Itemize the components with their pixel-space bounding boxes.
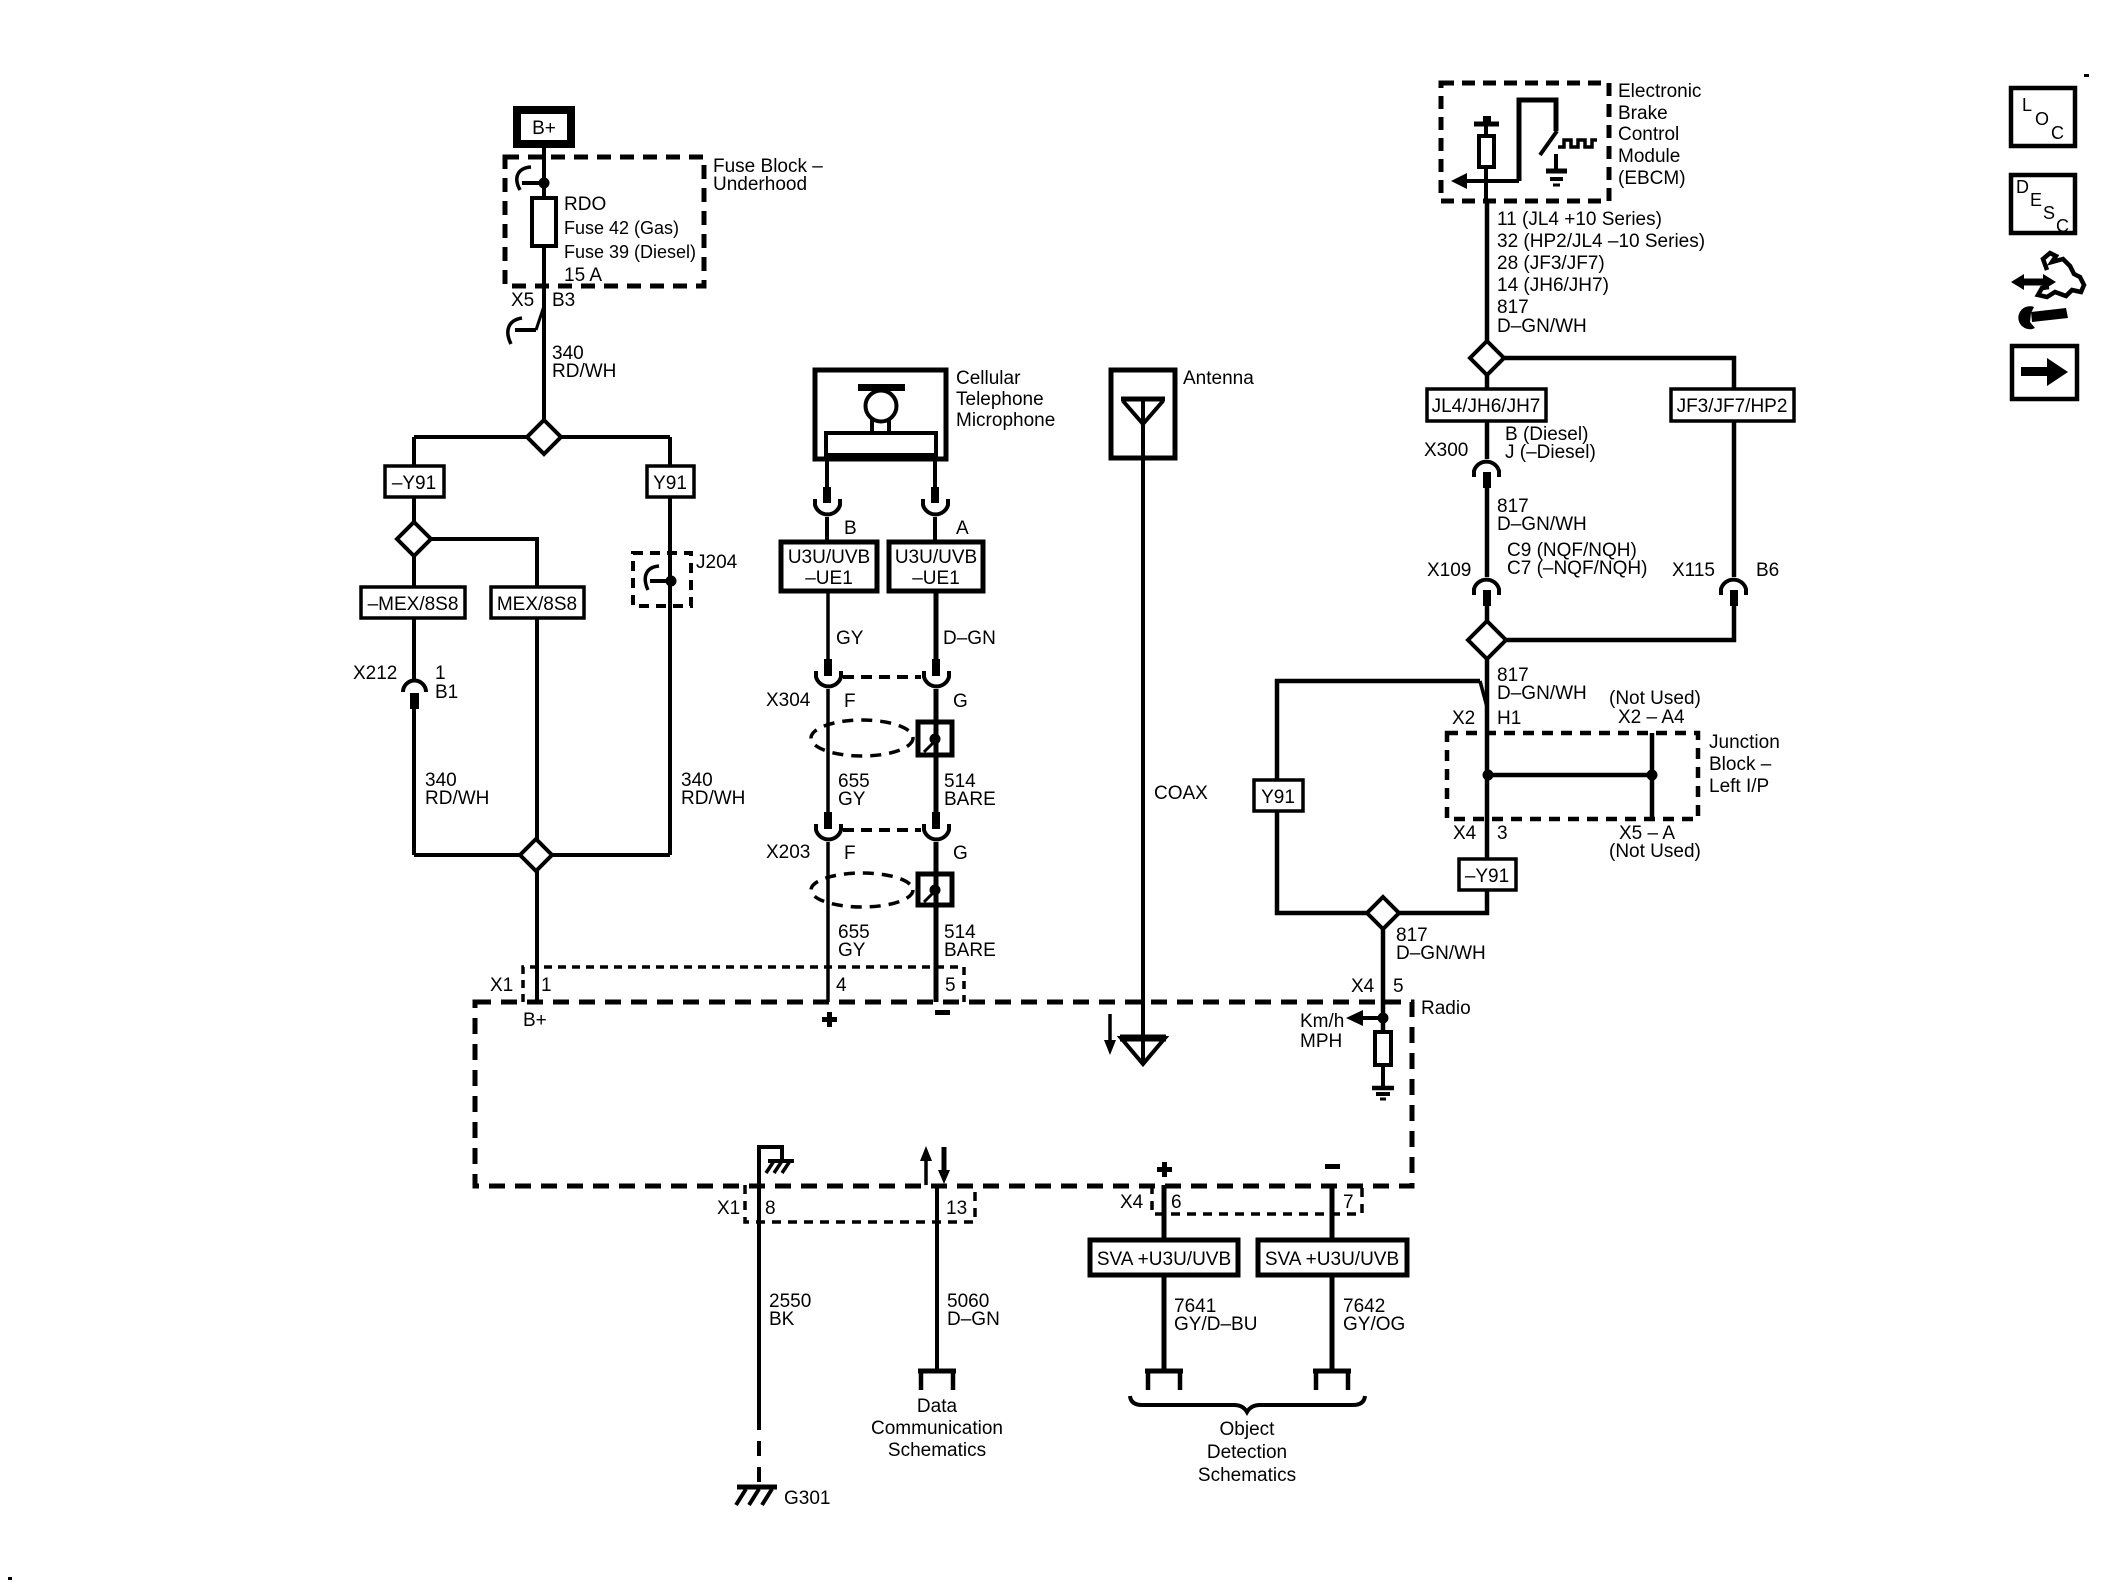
label X2 H1 — [1452, 708, 1521, 729]
svg-text:G: G — [953, 843, 968, 864]
option box JL4/JH6/JH7 — [1427, 389, 1546, 421]
wire splice to MEX/8S8 — [429, 539, 537, 587]
label X115 B6 — [1672, 560, 1779, 581]
label X109 C9 C7 — [1427, 540, 1647, 581]
svg-text:Underhood: Underhood — [713, 174, 807, 195]
svg-text:G301: G301 — [784, 1488, 830, 1509]
svg-text:Cellular: Cellular — [956, 368, 1021, 389]
coax shield terminator triangle — [1120, 1038, 1166, 1064]
svg-text:G: G — [953, 691, 968, 712]
wire -MEX/8S8 to X212 — [412, 618, 416, 680]
svg-text:GY/D–BU: GY/D–BU — [1174, 1314, 1257, 1335]
wire 7642 GY/OG — [1330, 1275, 1335, 1371]
label 817 D-GN/WH lower — [1497, 665, 1587, 704]
junction dot J204 — [666, 576, 677, 587]
svg-text:B1: B1 — [435, 682, 458, 703]
fuse block underhood dashed box — [505, 157, 704, 286]
wire G to radio pin 5 — [934, 842, 939, 1002]
svg-text:–Y91: –Y91 — [392, 473, 436, 494]
wire Y91 box to splice — [1277, 811, 1367, 913]
svg-text:7: 7 — [1343, 1192, 1354, 1213]
svg-text:–UE1: –UE1 — [912, 568, 960, 589]
brace object detection — [1130, 1396, 1365, 1412]
svg-text:X1: X1 — [717, 1198, 740, 1219]
wire B+ to fuse block — [542, 148, 546, 198]
svg-text:D–GN/WH: D–GN/WH — [1497, 514, 1587, 535]
svg-text:E: E — [2030, 190, 2042, 210]
wire MEX/8S8 down — [535, 618, 539, 855]
svg-text:X4: X4 — [1120, 1192, 1144, 1213]
svg-text:X2 – A4: X2 – A4 — [1618, 707, 1685, 728]
connector X115 pin B6 — [1721, 580, 1746, 606]
svg-text:13: 13 — [946, 1198, 967, 1219]
label Electronic Brake Control Module (EBCM) — [1618, 81, 1701, 189]
svg-text:Brake: Brake — [1618, 103, 1668, 124]
connector X300 pin B/J — [1474, 462, 1499, 488]
wire splice horizontal run — [414, 435, 670, 439]
svg-text:Block –: Block – — [1709, 754, 1772, 775]
junction dot fuse input — [539, 178, 550, 189]
splice diamond S1 — [527, 420, 561, 454]
junction dot right — [1647, 770, 1658, 781]
svg-text:1: 1 — [435, 663, 446, 684]
wire EBCM to splice diamond 817 — [1485, 201, 1490, 341]
option box -Y91 — [385, 466, 444, 497]
wire F to radio pin 4 — [826, 842, 830, 1002]
label Cellular Telephone Microphone — [956, 368, 1055, 431]
label 817 D-GN/WH bottom — [1396, 925, 1486, 964]
icon vehicle double arrow — [2011, 274, 2056, 290]
option box Y91 right — [1254, 780, 1303, 811]
resistor radio internal — [1375, 1032, 1391, 1065]
antenna symbol — [1121, 399, 1165, 424]
svg-text:S: S — [2043, 203, 2055, 223]
twisted lead ellipse lower — [811, 873, 913, 907]
node B+ power feed box — [517, 110, 571, 144]
junction block internal bus — [1488, 733, 1652, 819]
icon LOC box — [2011, 88, 2075, 146]
label 2550 BK — [769, 1291, 811, 1330]
wire radio internal to resistor — [1381, 1002, 1386, 1032]
wire B to option box — [825, 517, 829, 542]
svg-text:U3U/UVB: U3U/UVB — [788, 547, 870, 568]
svg-text:32 (HP2/JL4 –10 Series): 32 (HP2/JL4 –10 Series) — [1497, 231, 1705, 252]
EBCM internal arrow out — [1451, 173, 1519, 189]
svg-text:5: 5 — [945, 975, 956, 996]
connector X203 pin G — [924, 812, 949, 839]
EBCM internal switch contact — [1519, 100, 1557, 181]
label 655 GY lower — [838, 922, 870, 961]
svg-text:D: D — [2016, 177, 2029, 197]
svg-text:14 (JH6/JH7): 14 (JH6/JH7) — [1497, 275, 1609, 296]
wire X109 to splice — [1485, 606, 1490, 621]
svg-text:J (–Diesel): J (–Diesel) — [1505, 442, 1596, 463]
label 514 BARE lower — [944, 922, 996, 961]
wire resistor to ground — [1381, 1065, 1385, 1088]
svg-text:B3: B3 — [552, 290, 575, 311]
svg-text:Microphone: Microphone — [956, 410, 1055, 431]
option box U3U/UVB -UE1 right — [889, 542, 983, 591]
option box -Y91 right — [1459, 859, 1516, 890]
label 340 RD/WH upper — [552, 343, 616, 382]
wire GY down to X304 — [826, 591, 830, 659]
svg-text:Telephone: Telephone — [956, 389, 1044, 410]
label X5-A not used — [1609, 823, 1701, 862]
svg-text:11 (JL4 +10 Series): 11 (JL4 +10 Series) — [1497, 209, 1662, 230]
svg-text:A: A — [956, 518, 969, 539]
radio dashed box — [475, 1002, 1412, 1186]
wire fuse to splice diamond, circuit 340 RD/WH — [542, 246, 546, 421]
EBCM internal driver resistor — [1474, 116, 1499, 201]
svg-text:Y91: Y91 — [653, 473, 687, 494]
svg-text:B6: B6 — [1756, 560, 1779, 581]
terminal hook at fuse block input — [517, 167, 540, 190]
svg-text:X115: X115 — [1672, 560, 1715, 581]
label X203 F G — [766, 842, 968, 864]
svg-text:BARE: BARE — [944, 940, 996, 961]
splice diamond S6 — [1367, 897, 1399, 929]
wire splice to radio pin X1-1 — [535, 871, 539, 1002]
wire JL4 box to X300 — [1485, 421, 1490, 459]
svg-text:D–GN/WH: D–GN/WH — [1497, 683, 1587, 704]
radio bottom connector row X1 — [745, 1185, 975, 1222]
EBCM internal ground — [1546, 154, 1567, 185]
off-page connector object detection right — [1313, 1371, 1351, 1390]
svg-text:O: O — [2035, 109, 2049, 129]
label 655 GY upper — [838, 771, 870, 810]
wire splice through junction block to -Y91 — [1485, 659, 1490, 859]
svg-text:–UE1: –UE1 — [805, 568, 853, 589]
svg-text:Y91: Y91 — [1261, 787, 1295, 808]
svg-text:Fuse 42 (Gas): Fuse 42 (Gas) — [564, 218, 679, 238]
wire X115 to splice — [1504, 606, 1734, 640]
junction dot left — [1483, 770, 1494, 781]
svg-text:MPH: MPH — [1300, 1031, 1342, 1052]
radio internal serial data arrows pin 13 — [920, 1146, 950, 1185]
radio top connector row X1 — [523, 967, 964, 1002]
svg-text:B: B — [844, 518, 857, 539]
svg-text:Data: Data — [917, 1396, 958, 1417]
svg-text:15 A: 15 A — [564, 265, 602, 286]
splice diamond S3 — [520, 839, 552, 871]
svg-text:B+: B+ — [532, 118, 556, 139]
plus sign pin 4 — [822, 1012, 837, 1027]
wire splice to radio pin X4-5 — [1381, 929, 1386, 1002]
wire to -Y91 — [412, 437, 416, 466]
connector X203 pin F — [816, 812, 841, 839]
svg-text:8: 8 — [765, 1198, 776, 1219]
option box SVA +U3U/UVB right — [1258, 1240, 1407, 1275]
label X4 3 — [1453, 823, 1508, 844]
ground G301 — [736, 1487, 777, 1505]
svg-text:D–GN/WH: D–GN/WH — [1396, 943, 1486, 964]
wire D-GN down to X304 — [934, 591, 939, 659]
svg-text:X5: X5 — [511, 290, 534, 311]
connector mic pin B — [815, 487, 840, 514]
svg-text:X304: X304 — [766, 690, 811, 711]
shield splice box upper — [918, 722, 952, 755]
microphone symbol — [826, 384, 936, 455]
svg-text:X4: X4 — [1351, 976, 1375, 997]
icon wrench — [2018, 306, 2068, 329]
svg-text:RD/WH: RD/WH — [552, 361, 616, 382]
wire splice to -MEX/8S8 — [412, 556, 416, 587]
label X212 1 B1 — [353, 663, 458, 703]
label 817 D-GN/WH top — [1497, 297, 1587, 337]
option box MEX/8S8 — [491, 587, 584, 618]
off-page connector object detection left — [1145, 1371, 1183, 1390]
junction dot radio speed tap — [1378, 1013, 1389, 1024]
svg-text:X2: X2 — [1452, 708, 1475, 729]
svg-text:X212: X212 — [353, 663, 397, 684]
icon vehicle outline — [2038, 253, 2084, 297]
option box Y91 — [647, 466, 694, 497]
label 817 D-GN/WH mid — [1497, 496, 1587, 535]
svg-text:Junction: Junction — [1709, 732, 1780, 753]
svg-text:3: 3 — [1497, 823, 1508, 844]
svg-text:4: 4 — [836, 975, 847, 996]
svg-text:Detection: Detection — [1207, 1442, 1287, 1463]
option box JF3/JF7/HP2 — [1671, 389, 1794, 421]
svg-text:H1: H1 — [1497, 708, 1521, 729]
svg-text:JF3/JF7/HP2: JF3/JF7/HP2 — [1677, 396, 1788, 417]
svg-text:GY/OG: GY/OG — [1343, 1314, 1405, 1335]
svg-text:817: 817 — [1497, 297, 1529, 318]
connector X304 dashed tie line — [843, 675, 921, 679]
svg-text:RDO: RDO — [564, 194, 606, 215]
wire pin 6 to SVA box — [1162, 1185, 1167, 1240]
wire F to X203 — [826, 689, 830, 812]
label RDO fuse values — [564, 194, 696, 286]
EBCM internal PWM wave symbol — [1558, 140, 1597, 147]
connector X304 pin G — [924, 659, 949, 686]
wire coax antenna to radio — [1141, 399, 1145, 1064]
svg-text:GY: GY — [838, 940, 866, 961]
splice diamond S2 — [397, 522, 431, 556]
svg-text:Electronic: Electronic — [1618, 81, 1701, 102]
svg-text:–MEX/8S8: –MEX/8S8 — [368, 594, 459, 615]
svg-text:BK: BK — [769, 1309, 795, 1330]
svg-text:F: F — [844, 691, 856, 712]
svg-text:L: L — [2022, 95, 2032, 115]
radio bottom connector row X4 — [1152, 1185, 1362, 1214]
svg-text:(Not Used): (Not Used) — [1609, 688, 1701, 709]
svg-text:MEX/8S8: MEX/8S8 — [497, 594, 577, 615]
option box U3U/UVB -UE1 left — [781, 542, 877, 591]
svg-text:RD/WH: RD/WH — [425, 788, 489, 809]
wire splice to JL4 box — [1485, 375, 1490, 389]
wire -Y91 to splice — [412, 497, 416, 522]
svg-text:B+: B+ — [523, 1010, 547, 1031]
wire X300 to X109, circuit 817 — [1485, 488, 1490, 577]
page artifact dot top right — [2084, 74, 2089, 77]
option box SVA +U3U/UVB left — [1090, 1240, 1238, 1275]
svg-text:(EBCM): (EBCM) — [1618, 168, 1686, 189]
svg-text:COAX: COAX — [1154, 783, 1208, 804]
wire JF3 box to X115 — [1732, 421, 1737, 577]
svg-text:Antenna: Antenna — [1183, 368, 1254, 389]
label X4 5 — [1351, 976, 1404, 997]
label 7641 GY/D-BU — [1174, 1296, 1257, 1335]
svg-text:Object: Object — [1220, 1419, 1276, 1440]
svg-text:Km/h: Km/h — [1300, 1011, 1344, 1032]
label Junction Block - Left I/P — [1709, 732, 1780, 797]
svg-text:Communication: Communication — [871, 1418, 1003, 1439]
svg-text:Control: Control — [1618, 124, 1679, 145]
minus sign pin 5 — [935, 1010, 950, 1015]
label X300 B J — [1424, 424, 1596, 463]
label 514 BARE upper — [944, 771, 996, 810]
wire Y91 branch down through J204 — [668, 497, 672, 855]
splice diamond S5 — [1468, 621, 1506, 659]
wire mic pin A — [933, 457, 937, 487]
radio internal chassis ground pin 8 — [759, 1147, 794, 1185]
svg-text:1: 1 — [541, 975, 552, 996]
svg-text:GY: GY — [838, 789, 866, 810]
fuse RDO F42/F39 15A — [532, 198, 556, 246]
label 340 RD/WH left — [425, 770, 489, 809]
off-page connector data — [918, 1371, 956, 1390]
svg-text:SVA +U3U/UVB: SVA +U3U/UVB — [1097, 1249, 1231, 1270]
wire mic pin B — [825, 457, 829, 487]
option box -MEX/8S8 — [361, 587, 465, 618]
wire 7641 GY/D-BU — [1162, 1275, 1167, 1371]
svg-text:Left I/P: Left I/P — [1709, 776, 1769, 797]
svg-text:D–GN: D–GN — [943, 628, 996, 649]
antenna box — [1111, 370, 1175, 458]
wire pin 7 to SVA box — [1330, 1185, 1335, 1240]
svg-text:–Y91: –Y91 — [1465, 866, 1509, 887]
connector X5 pin B3 slash symbol — [508, 306, 544, 344]
connector X304 pin F — [816, 659, 841, 686]
junction block left I/P dashed box — [1447, 733, 1698, 819]
shield splice box lower — [918, 874, 952, 905]
wire pin 13 data line, circuit 5060 D-GN — [935, 1185, 939, 1371]
svg-text:C7 (–NQF/NQH): C7 (–NQF/NQH) — [1507, 558, 1647, 579]
wire A to option box — [933, 517, 937, 542]
plus sign pin 6 — [1157, 1162, 1172, 1177]
svg-text:Schematics: Schematics — [888, 1440, 986, 1461]
wire G to X203 — [934, 689, 939, 812]
label X2-A4 not used — [1609, 688, 1701, 728]
label Object Detection Schematics — [1198, 1419, 1296, 1486]
svg-text:X203: X203 — [766, 842, 810, 863]
wire dashed to ground — [757, 1415, 761, 1486]
label EBCM pin list — [1497, 209, 1705, 296]
icon arrow box — [2012, 346, 2077, 399]
icon DESC box — [2011, 175, 2075, 236]
svg-text:(Not Used): (Not Used) — [1609, 841, 1701, 862]
wire pin 8 to G301, circuit 2550 BK — [757, 1185, 761, 1415]
splice pack J204 dashed box — [633, 553, 691, 606]
connector X109 pin C9/C7 — [1474, 580, 1499, 606]
coax direction arrow — [1104, 1014, 1116, 1055]
connector X203 dashed tie line — [843, 828, 921, 832]
svg-text:6: 6 — [1171, 1192, 1182, 1213]
svg-text:C: C — [2051, 123, 2064, 143]
svg-text:Fuse 39 (Diesel): Fuse 39 (Diesel) — [564, 242, 696, 262]
svg-text:D–GN/WH: D–GN/WH — [1497, 316, 1587, 337]
label X5 B3 — [511, 290, 575, 311]
svg-text:C: C — [2056, 216, 2069, 236]
svg-text:RD/WH: RD/WH — [681, 788, 745, 809]
label 340 RD/WH right — [681, 770, 745, 809]
splice diamond S4 — [1470, 341, 1504, 375]
connector mic pin A — [923, 487, 948, 514]
svg-text:SVA +U3U/UVB: SVA +U3U/UVB — [1265, 1249, 1399, 1270]
wire X212 to lower splice, circuit 340 RD/WH — [412, 709, 416, 855]
wire -Y91 to splice — [1399, 890, 1487, 913]
svg-text:F: F — [844, 843, 856, 864]
svg-text:U3U/UVB: U3U/UVB — [895, 547, 977, 568]
wire Y91 loop — [1277, 681, 1487, 780]
svg-text:Radio: Radio — [1421, 998, 1471, 1019]
svg-text:D–GN: D–GN — [947, 1309, 1000, 1330]
svg-text:JL4/JH6/JH7: JL4/JH6/JH7 — [1432, 396, 1541, 417]
label Km/h MPH — [1300, 1011, 1344, 1052]
minus sign pin 7 — [1325, 1164, 1340, 1169]
label X304 F G — [766, 690, 968, 712]
svg-text:Schematics: Schematics — [1198, 1465, 1296, 1486]
wire lower splice horizontal — [414, 853, 670, 857]
label Fuse Block - Underhood — [713, 156, 823, 195]
svg-text:X1: X1 — [490, 975, 513, 996]
svg-text:GY: GY — [836, 628, 864, 649]
page artifact dot bottom left — [8, 1577, 12, 1580]
svg-text:BARE: BARE — [944, 789, 996, 810]
label Data Communication Schematics — [871, 1396, 1003, 1461]
terminal hook inside J204 — [645, 566, 666, 590]
svg-text:5: 5 — [1393, 976, 1404, 997]
svg-text:28 (JF3/JF7): 28 (JF3/JF7) — [1497, 253, 1605, 274]
svg-text:X300: X300 — [1424, 440, 1468, 461]
svg-text:J204: J204 — [696, 552, 738, 573]
wire to Y91 — [668, 437, 672, 466]
label 5060 D-GN — [947, 1291, 1000, 1330]
svg-text:X4: X4 — [1453, 823, 1477, 844]
speed signal arrow Km/h MPH — [1346, 1010, 1383, 1026]
svg-text:Module: Module — [1618, 146, 1680, 167]
label 7642 GY/OG — [1343, 1296, 1405, 1335]
ground radio internal — [1372, 1088, 1394, 1099]
svg-text:X109: X109 — [1427, 560, 1471, 581]
connector X212 pin 1/B1 — [403, 681, 426, 709]
cellular telephone microphone box — [815, 370, 946, 459]
EBCM dashed box — [1441, 83, 1609, 201]
wire splice to JF3 branch — [1502, 358, 1734, 389]
twisted lead ellipse upper — [811, 720, 913, 756]
